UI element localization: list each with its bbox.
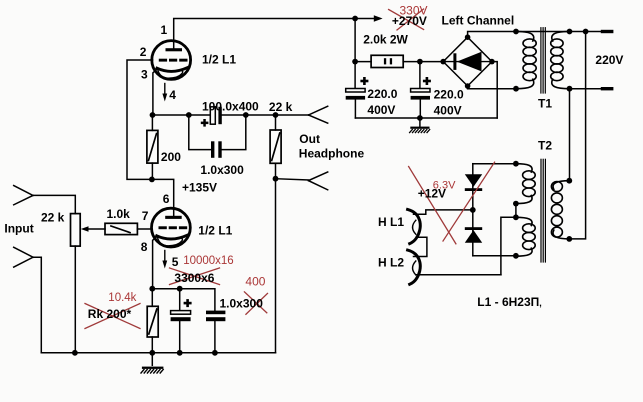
wire diode chain vertical bbox=[472, 164, 474, 256]
wire input jack 1 to volume pot bbox=[33, 195, 75, 213]
V1 cathode arc bbox=[157, 68, 188, 72]
svg-text:1.0k: 1.0k bbox=[107, 207, 131, 221]
lamp HL2 heater symbol bbox=[408, 250, 421, 284]
wire 22k load bottom lead down to ground rail bbox=[275, 163, 277, 352]
node C2 top bbox=[417, 59, 423, 65]
diode VD1 heater rectifier top bbox=[465, 174, 482, 191]
bridge diode cathode bar bbox=[453, 53, 456, 70]
wire Rk top lead bbox=[151, 289, 153, 307]
potentiometer wiper arrowhead bbox=[81, 226, 89, 232]
strike X over 330V bbox=[389, 10, 424, 30]
svg-text:6.3V: 6.3V bbox=[433, 180, 456, 192]
transformer T2 primary winding (right) bbox=[551, 181, 569, 239]
svg-text:T1: T1 bbox=[538, 97, 552, 111]
svg-text:H L2: H L2 bbox=[378, 255, 404, 269]
node T1 sec top bbox=[513, 29, 519, 35]
text labels black bbox=[4, 13, 623, 321]
wire bridge right vertex to minus rail bbox=[492, 62, 497, 118]
svg-text:4: 4 bbox=[169, 88, 176, 102]
strike X over Rk 200 bbox=[85, 304, 140, 329]
svg-text:1.0x300: 1.0x300 bbox=[200, 163, 244, 177]
input jack 2 bbox=[14, 247, 33, 267]
svg-text:1/2 L1: 1/2 L1 bbox=[198, 224, 232, 238]
resistor 200 bbox=[147, 130, 158, 163]
svg-text:400V: 400V bbox=[367, 103, 395, 117]
node B+ tap bbox=[352, 16, 358, 22]
node C1 top bbox=[352, 59, 358, 65]
plus sign of C2 bbox=[423, 77, 431, 85]
node 22k bottom out bbox=[273, 176, 279, 182]
capacitor C2 220.0 400V (polarized) bbox=[411, 89, 430, 100]
wire PSU minus rail bbox=[355, 117, 497, 119]
wire bridge top to T1 secondary top bbox=[468, 32, 516, 38]
ground symbol main bbox=[141, 367, 163, 373]
svg-text:220V: 220V bbox=[595, 53, 623, 67]
wire V1 grid pin2 to SRPP midpoint bbox=[127, 60, 153, 179]
svg-text:3: 3 bbox=[141, 68, 148, 82]
V2 heater pin5 arrow bbox=[162, 251, 167, 269]
node pot ground bbox=[72, 350, 78, 356]
svg-text:3300x6: 3300x6 bbox=[174, 271, 214, 285]
arrow B+ to right channel bbox=[374, 15, 383, 22]
node 22k top bbox=[273, 112, 279, 118]
ground symbol PSU bbox=[410, 127, 430, 133]
plus sign of C1 bbox=[360, 77, 368, 85]
capacitor C1 220.0 400V (polarized) bbox=[346, 89, 365, 100]
wire bridge bottom to T1 secondary bottom bbox=[468, 86, 516, 89]
node bridge right bbox=[489, 59, 495, 65]
svg-text:1/2 L1: 1/2 L1 bbox=[202, 53, 236, 67]
wire C2 bottom lead bbox=[419, 99, 421, 118]
wire 1.0k to V2 grid pin7 bbox=[137, 228, 152, 230]
capacitor cathode 1.0x300 bbox=[206, 311, 225, 322]
transformer T2 heater winding upper (left) bbox=[516, 164, 535, 204]
svg-text:7: 7 bbox=[142, 209, 149, 223]
svg-text:Rk 200*: Rk 200* bbox=[88, 307, 132, 321]
wire mains bottom line to plug prong bbox=[570, 88, 602, 90]
resistor 2.0k 2W bbox=[371, 55, 403, 67]
V2 anode bar bbox=[165, 216, 182, 219]
capacitor 1.0x300 bypass bbox=[211, 141, 222, 158]
text labels red bbox=[108, 4, 456, 305]
svg-text:330V: 330V bbox=[400, 4, 428, 18]
svg-text:400V: 400V bbox=[434, 103, 462, 117]
node PSU ground bbox=[417, 115, 423, 121]
wire 2.0k left lead bbox=[355, 61, 371, 63]
svg-text:Input: Input bbox=[4, 222, 33, 236]
bridge internal link bbox=[445, 61, 490, 63]
node bridge left bbox=[440, 59, 446, 65]
svg-text:Left Channel: Left Channel bbox=[442, 13, 515, 27]
V2 cathode arc bbox=[157, 235, 188, 239]
transformer T1 primary winding (right) bbox=[551, 32, 570, 89]
output jack 2 bbox=[308, 172, 327, 190]
wire cathode node horizontal bbox=[152, 289, 215, 311]
node T2 pri top terminal bbox=[566, 178, 572, 184]
potentiometer 22k body bbox=[71, 214, 81, 247]
wire tube V1 plate pin1 to B+ rail bbox=[174, 19, 355, 49]
svg-text:+135V: +135V bbox=[182, 180, 217, 194]
mains plug prong bottom bbox=[601, 87, 614, 90]
wire filter cap C2 top lead bbox=[419, 62, 421, 89]
wire cathode electrolytic top lead bbox=[179, 289, 181, 311]
capacitor 100.0x400 output (polarized) bbox=[210, 107, 221, 124]
plus sign of output cap bbox=[201, 119, 209, 127]
wire cathode electrolytic bottom lead bbox=[179, 321, 181, 353]
wire 2.0k right lead to bridge bbox=[403, 61, 443, 63]
wire center tap link bbox=[515, 204, 517, 218]
svg-text:220.0: 220.0 bbox=[367, 87, 397, 101]
svg-text:8: 8 bbox=[141, 240, 148, 254]
svg-text:22 k: 22 k bbox=[41, 210, 65, 224]
wire ground stub main bbox=[151, 353, 153, 366]
wire PSU B+ vertical to filter cap C1 bbox=[354, 19, 356, 89]
diode VD2 heater rectifier bottom bbox=[465, 227, 482, 243]
svg-text:6: 6 bbox=[163, 192, 170, 206]
wire heater winding center tap return bbox=[501, 217, 516, 274]
wire resistor 200 bottom lead bbox=[151, 163, 153, 179]
transformer T2 heater winding lower (left) bbox=[516, 217, 535, 256]
wire arrow feed to other channel bbox=[355, 18, 375, 20]
svg-text:400: 400 bbox=[245, 274, 265, 288]
wire Rk bottom lead bbox=[151, 337, 153, 353]
output jack 1 bbox=[308, 106, 327, 123]
strike X over 3300x6 bbox=[170, 268, 220, 285]
resistor Rk cathode bbox=[147, 306, 158, 337]
wire input jack 2 to ground rail bbox=[33, 257, 41, 353]
node bypass right bbox=[243, 112, 249, 118]
wire +12V feed to heater lamps bbox=[414, 210, 473, 214]
plus sign of cathode electrolytic bbox=[184, 299, 192, 307]
node bridge top bbox=[465, 34, 471, 40]
V1 heater pin4 arrow bbox=[162, 84, 167, 102]
wire T2 heater winding top to diode chain bbox=[473, 163, 516, 165]
wire pot wiper to 1.0k bbox=[86, 228, 105, 230]
node bypass left bbox=[186, 112, 192, 118]
wire HL2 bottom return bbox=[416, 274, 501, 276]
svg-text:100.0x400: 100.0x400 bbox=[202, 99, 259, 113]
node Rk ground bbox=[149, 350, 155, 356]
strike X over 1.0x300 value bbox=[244, 292, 266, 313]
svg-text:1: 1 bbox=[161, 23, 168, 37]
svg-text:Out: Out bbox=[299, 132, 320, 146]
node T1 pri top bbox=[567, 29, 573, 35]
wire V1 cathode pin3 down to output rail bbox=[153, 69, 157, 115]
node cap2 ground bbox=[212, 350, 218, 356]
resistor 1.0k grid stopper bbox=[105, 223, 137, 234]
wire pot bottom lead bbox=[74, 246, 76, 353]
wire output rail right segment bbox=[222, 114, 309, 116]
transformer T1 secondary winding (left) bbox=[516, 32, 536, 89]
V1 anode bar bbox=[166, 48, 183, 51]
node T2 heater top bbox=[513, 161, 519, 167]
wire bypass cap left branch bbox=[189, 115, 211, 150]
wire V2 cathode pin8 down bbox=[153, 236, 157, 288]
svg-text:220.0: 220.0 bbox=[434, 88, 464, 102]
svg-text:200: 200 bbox=[161, 150, 181, 164]
wire diode chain bottom to winding bottom bbox=[473, 255, 516, 257]
svg-text:10000x16: 10000x16 bbox=[183, 255, 234, 267]
wire T1 top terminals link bbox=[516, 31, 570, 33]
wire bottom ground rail bbox=[41, 352, 275, 354]
node T1 sec bottom bbox=[513, 86, 519, 92]
wire resistor 200 top lead bbox=[151, 115, 153, 130]
bridge rectifier diamond bbox=[443, 37, 492, 86]
node +12V diode junction bbox=[470, 207, 476, 213]
wire T2 primary bottom to mains top bbox=[569, 32, 585, 239]
V2 grid dashes bbox=[159, 226, 188, 229]
lamp HL1 heater symbol bbox=[408, 209, 421, 243]
svg-text:1.0x300: 1.0x300 bbox=[220, 296, 264, 310]
V1 grid dashes bbox=[159, 59, 188, 62]
svg-text:10.4k: 10.4k bbox=[108, 292, 136, 304]
wire to headphone connector 2 bbox=[276, 179, 309, 180]
wire T2 primary top to mains bottom bbox=[569, 89, 571, 181]
node T2 pri bottom terminal bbox=[566, 236, 572, 242]
node V2 cathode bbox=[149, 286, 155, 292]
node bridge bottom bbox=[465, 83, 471, 89]
node T2 pri branch top bbox=[583, 29, 589, 35]
wire HL1 bottom to HL2 top bbox=[414, 237, 427, 256]
wire PSU ground stub bbox=[419, 118, 421, 127]
bridge diode triangle bbox=[457, 52, 482, 72]
transformer T1 core bbox=[541, 28, 545, 93]
strike X over heater diodes bbox=[409, 167, 456, 244]
wire 22k load top lead bbox=[275, 115, 277, 130]
wire C1 bottom lead bbox=[354, 99, 356, 118]
node cap ground bbox=[177, 350, 183, 356]
V1 heater dome bbox=[158, 69, 183, 78]
wire bypass cap right branch bbox=[222, 115, 246, 150]
triode V1 (1/2 L1 upper) envelope bbox=[152, 41, 191, 80]
node T1 pri bottom bbox=[567, 86, 573, 92]
capacitor cathode electrolytic (10000x16) bbox=[171, 311, 191, 322]
svg-text:L1 - 6Н23П,: L1 - 6Н23П, bbox=[477, 295, 542, 309]
triode V2 (1/2 L1 lower) envelope bbox=[152, 208, 191, 247]
svg-text:5: 5 bbox=[172, 255, 179, 269]
transformer T2 core bbox=[541, 159, 545, 262]
wire output rail left segment bbox=[153, 114, 211, 116]
node T2 center tap lower bbox=[513, 214, 519, 220]
node T2 heater bottom bbox=[513, 253, 519, 259]
svg-text:2.0k 2W: 2.0k 2W bbox=[363, 33, 408, 47]
node cathode cap top bbox=[177, 286, 183, 292]
V2 heater dome bbox=[157, 236, 182, 245]
node T2 center tap upper bbox=[513, 201, 519, 207]
input jack 1 bbox=[14, 186, 33, 205]
node V1 cathode rail bbox=[150, 112, 156, 118]
svg-text:2: 2 bbox=[140, 45, 147, 59]
red corrections bbox=[85, 9, 495, 329]
svg-text:T2: T2 bbox=[538, 138, 552, 152]
svg-text:Headphone: Headphone bbox=[299, 147, 365, 161]
svg-text:22 k: 22 k bbox=[269, 100, 293, 114]
wire mains top line to plug prong bbox=[570, 31, 602, 33]
mains plug prong top bbox=[601, 30, 614, 33]
wire cathode 1.0x300 bottom lead bbox=[214, 321, 216, 353]
resistor 22k load bbox=[270, 130, 281, 163]
wire midpoint to V2 plate pin6 bbox=[152, 179, 174, 216]
svg-text:H L1: H L1 bbox=[378, 215, 404, 229]
node SRPP midpoint bbox=[149, 177, 155, 183]
